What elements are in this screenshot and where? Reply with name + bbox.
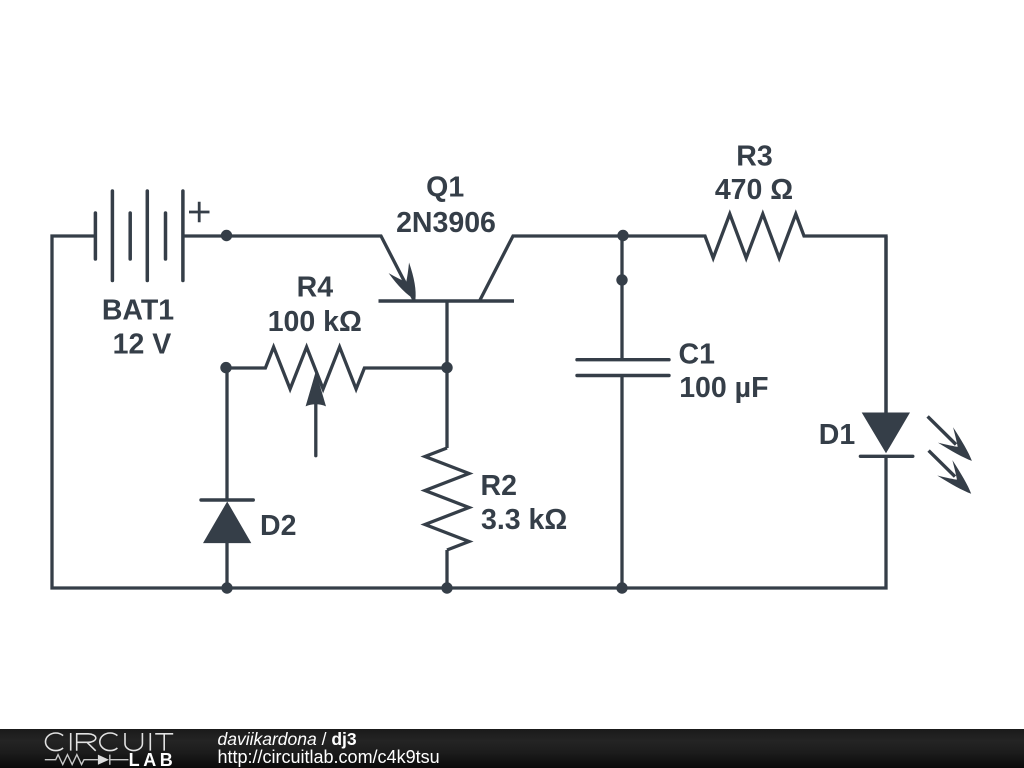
svg-text:D2: D2	[260, 510, 296, 542]
svg-text:D1: D1	[819, 419, 856, 451]
svg-text:BAT1: BAT1	[102, 295, 174, 327]
svg-text:Q1: Q1	[426, 172, 464, 204]
svg-text:R3: R3	[736, 140, 772, 172]
svg-text:12 V: 12 V	[113, 329, 172, 361]
svg-text:LAB: LAB	[129, 750, 177, 768]
svg-text:R4: R4	[297, 272, 334, 304]
svg-text:R2: R2	[481, 470, 517, 502]
svg-text:2N3906: 2N3906	[396, 207, 496, 239]
svg-text:100 µF: 100 µF	[679, 372, 768, 404]
svg-text:100 kΩ: 100 kΩ	[268, 306, 362, 338]
svg-text:3.3 kΩ: 3.3 kΩ	[481, 504, 567, 536]
svg-text:C1: C1	[679, 339, 716, 371]
svg-text:470 Ω: 470 Ω	[715, 174, 793, 206]
